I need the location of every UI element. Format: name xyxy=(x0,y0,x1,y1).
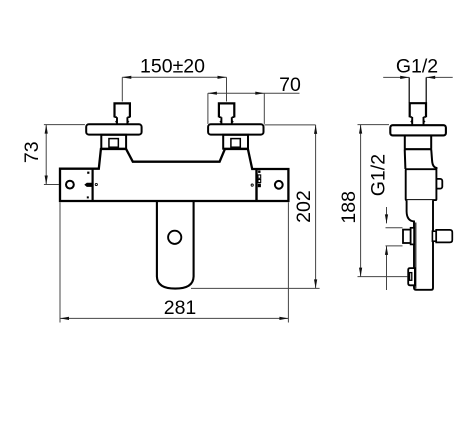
side view: eccentric fitting xyxy=(410,103,426,125)
front view: right handle circle xyxy=(275,181,283,189)
side view: slab inner edge line xyxy=(415,223,417,289)
svg-text:202: 202 xyxy=(293,190,315,223)
front view: left handle circle xyxy=(66,181,74,189)
arrow 281 left xyxy=(60,317,69,320)
arrow 202 bottom xyxy=(314,279,317,288)
dim 202 extension top xyxy=(264,124,315,126)
front view: tiny circle right of left divider xyxy=(95,183,97,185)
dim 188 line xyxy=(360,125,362,277)
svg-text:188: 188 xyxy=(338,191,360,224)
front view: left union nut inner square xyxy=(109,139,118,148)
arrow G1/2 top-dim right xyxy=(426,76,435,79)
arrow 188 top xyxy=(359,125,362,134)
front view: left union nut xyxy=(101,135,126,149)
front view: left block divider xyxy=(91,169,93,201)
dim 202 line xyxy=(315,125,317,289)
side view: diverter knob xyxy=(408,268,415,285)
dim 70 extension right xyxy=(263,93,265,124)
front view: left eccentric fitting xyxy=(115,103,130,124)
dim 281 line xyxy=(60,317,288,319)
svg-text:281: 281 xyxy=(164,297,197,319)
dim 150±20 extension right xyxy=(226,77,228,101)
dim 202 extension bottom xyxy=(191,287,320,289)
arrow 70 right xyxy=(255,92,264,95)
dim G1/2 side extension top xyxy=(386,227,403,229)
front view: right block scale marks xyxy=(258,171,261,188)
arrow 150 left xyxy=(122,76,131,79)
dim 73 line xyxy=(45,125,47,185)
arrow G1/2 side down xyxy=(385,214,388,223)
arrow 73 bottom xyxy=(45,176,48,185)
svg-text:73: 73 xyxy=(21,141,43,163)
svg-text:G1/2: G1/2 xyxy=(367,154,389,196)
svg-text:70: 70 xyxy=(279,74,301,96)
side view: neck ring xyxy=(404,148,432,150)
dim 188 extension bottom xyxy=(358,276,408,278)
front view: right block divider xyxy=(255,169,257,201)
front view: tiny circle left of right divider xyxy=(251,184,253,186)
dim G1/2 top right segment xyxy=(426,76,453,78)
arrow 73 top xyxy=(45,125,48,134)
dim G1/2 top left segment xyxy=(383,76,409,78)
dim 281 extension left xyxy=(59,202,61,322)
arrow G1/2 top-dim left xyxy=(400,76,409,79)
side view: lower slab xyxy=(407,200,433,290)
arrow 188 bottom xyxy=(359,268,362,277)
side view: tab on right of block xyxy=(434,179,442,189)
side view: wall pipe xyxy=(409,77,426,102)
front view: left block temperature marks xyxy=(84,172,91,199)
arrow 150 right xyxy=(218,76,227,79)
dim 70 line xyxy=(208,92,300,94)
front view: spout xyxy=(157,201,194,289)
front view: right eccentric fitting xyxy=(219,103,234,124)
dim 188 extension top xyxy=(358,124,390,126)
dimension arrowheads xyxy=(45,76,436,320)
arrow G1/2 side up xyxy=(385,246,388,255)
dim G1/2 side top shaft xyxy=(386,207,388,223)
front view: right union nut inner square xyxy=(231,139,240,148)
dim 281 extension right xyxy=(287,202,289,322)
arrow 281 right xyxy=(279,317,288,320)
front view: mixer body outline xyxy=(60,149,288,201)
dim 73 extension bottom xyxy=(44,184,59,186)
dim 70 extension left xyxy=(207,93,209,124)
dim 73 extension top xyxy=(44,124,85,126)
front view: left wall flange xyxy=(86,124,141,134)
side view: right port cylinder xyxy=(436,230,452,243)
front view: right union nut xyxy=(223,135,248,149)
side view: right port neck xyxy=(432,231,436,241)
svg-text:150±20: 150±20 xyxy=(140,56,205,78)
front view: spout diverter hole xyxy=(168,231,181,244)
dim G1/2 side bottom shaft xyxy=(386,246,388,290)
side view: main block xyxy=(406,169,437,200)
dim 150±20 extension left xyxy=(121,77,123,101)
svg-text:G1/2: G1/2 xyxy=(396,56,438,78)
side view: lower neck xyxy=(405,149,437,169)
side view: diverter knob slot xyxy=(410,273,412,281)
dim G1/2 side extension bottom xyxy=(386,245,403,247)
dimension texts xyxy=(21,56,438,320)
side view: shower outlet nipple xyxy=(403,230,411,243)
dim 150±20 line xyxy=(122,76,226,78)
arrow 202 top xyxy=(314,125,317,134)
side view: shower outlet ring xyxy=(411,228,415,245)
side view: wall flange xyxy=(390,125,446,135)
side view: upper neck xyxy=(405,135,431,149)
arrow 70 left xyxy=(208,92,217,95)
dimension graphics xyxy=(44,77,453,322)
front view: right wall flange xyxy=(208,124,263,134)
